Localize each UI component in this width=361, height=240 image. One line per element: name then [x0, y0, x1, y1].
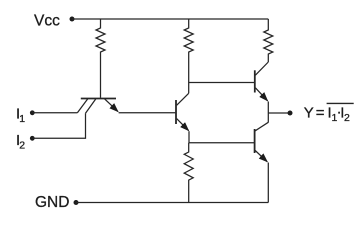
svg-text:2: 2 — [344, 112, 350, 124]
node I2 terminal dot — [30, 136, 35, 141]
node GND terminal dot — [74, 200, 79, 205]
wire input I1 to T1 emitter1 — [32, 112, 77, 114]
svg-text:=: = — [316, 105, 325, 122]
wire output Y tap — [268, 112, 290, 114]
resistor R2 — [184, 19, 193, 53]
wire R2 to node B — [188, 53, 190, 83]
overline bar for I1.I2 — [327, 102, 354, 104]
svg-text:GND: GND — [35, 194, 69, 211]
resistor R3 — [264, 19, 273, 62]
wire T4 emitter to GND rail — [267, 163, 269, 203]
wire T2 emitter to node C — [188, 131, 190, 143]
node Vcc terminal dot — [70, 17, 75, 22]
label Y = I1.I2 with overline — [304, 104, 350, 125]
wire node C to T4 base — [189, 142, 255, 144]
node Y terminal dot — [288, 111, 293, 116]
transistor T2 phase splitter — [176, 93, 189, 130]
wire Vcc rail — [72, 18, 268, 20]
svg-text:1: 1 — [19, 113, 25, 125]
node I1 terminal dot — [30, 110, 35, 115]
svg-text:2: 2 — [19, 140, 25, 152]
resistor R1 — [96, 19, 105, 53]
wire input I2 to T1 emitter2 — [32, 113, 85, 138]
resistor R4 — [184, 143, 193, 203]
svg-text:Vcc: Vcc — [34, 13, 60, 30]
wire T2 collector to node B — [188, 83, 190, 94]
wire GND rail — [76, 202, 268, 204]
label I1 — [16, 106, 25, 126]
wire T3 emitter to output column — [267, 102, 269, 123]
transistor T4 pull-down — [255, 122, 269, 162]
label Vcc — [34, 13, 60, 30]
label GND — [35, 194, 69, 211]
wire T1 output to T2 base — [119, 112, 176, 114]
wire node B to T3 base — [189, 82, 255, 84]
transistor T1 multi-emitter — [77, 99, 118, 114]
svg-text:Y: Y — [304, 105, 314, 122]
wire R1 to T1 base — [100, 53, 102, 98]
transistor T3 pull-up — [255, 62, 268, 101]
label I2 — [16, 132, 25, 152]
